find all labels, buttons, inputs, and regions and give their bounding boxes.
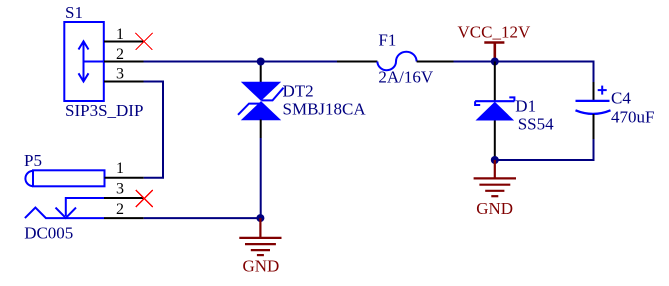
svg-text:GND: GND xyxy=(476,199,513,218)
svg-text:2: 2 xyxy=(116,46,124,63)
P5 sleeve chevron xyxy=(25,208,104,219)
svg-text:GND: GND xyxy=(243,257,280,276)
F1 wavy element xyxy=(377,52,416,71)
C4 top plate xyxy=(576,100,610,102)
capacitor C4 xyxy=(576,82,655,139)
svg-text:F1: F1 xyxy=(378,30,396,49)
svg-text:SMBJ18CA: SMBJ18CA xyxy=(283,100,367,119)
TVS diode DT2 xyxy=(238,62,366,139)
wire S1 pin2 to rail xyxy=(144,61,338,63)
svg-text:DC005: DC005 xyxy=(24,224,73,243)
GND right bar 2 xyxy=(479,184,510,186)
D1 cathode bar xyxy=(475,100,514,102)
svg-text:2A/16V: 2A/16V xyxy=(378,68,434,87)
D1 left schottky hook xyxy=(475,101,480,105)
svg-text:3: 3 xyxy=(116,180,124,197)
svg-text:SS54: SS54 xyxy=(518,115,554,134)
DT2 bottom pin xyxy=(260,120,262,139)
S1 body box xyxy=(64,22,104,101)
D1 top pin xyxy=(494,62,496,102)
S1 arrow head down xyxy=(79,73,89,81)
svg-text:S1: S1 xyxy=(65,3,83,22)
D1 anode triangle xyxy=(476,102,515,121)
svg-text:2: 2 xyxy=(116,201,124,218)
P5 pin 2 xyxy=(104,217,144,219)
C4 bottom pin xyxy=(593,114,595,139)
D1 bottom pin xyxy=(494,121,496,161)
DT2 lower bent bar xyxy=(238,104,261,115)
P5 pin 1 xyxy=(105,177,144,179)
svg-text:1: 1 xyxy=(116,160,124,177)
diode D1 xyxy=(475,62,554,161)
svg-text:D1: D1 xyxy=(515,96,536,115)
svg-text:VCC_12V: VCC_12V xyxy=(458,23,531,42)
GND left bar 3 xyxy=(251,249,270,251)
F1 left pin xyxy=(337,61,377,63)
GND left bar 4 xyxy=(257,254,264,256)
C4 plus sign xyxy=(598,89,607,91)
connector P5 (DC005) xyxy=(24,151,144,243)
connector S1 xyxy=(64,3,143,120)
svg-text:DT2: DT2 xyxy=(283,81,314,100)
ground GND left xyxy=(239,218,281,275)
junction D1 bottom xyxy=(491,156,499,164)
svg-text:470uF: 470uF xyxy=(611,108,654,127)
wire P5 pin2 to ground net xyxy=(144,217,261,219)
S1 slide arrow shaft xyxy=(83,43,85,80)
GND right bar 1 xyxy=(474,177,516,179)
S1 common bar xyxy=(84,61,105,63)
wire F1 to VCC junction xyxy=(454,61,495,63)
S1 pin 2 xyxy=(104,61,144,63)
C4 bottom plate arc xyxy=(576,110,611,114)
svg-text:C4: C4 xyxy=(611,88,631,107)
S1 pin 1 xyxy=(104,41,144,43)
GND right stub xyxy=(494,160,496,178)
F1 right pin xyxy=(417,61,454,63)
P5 barrel left cap xyxy=(25,171,33,186)
DT2 top pin xyxy=(260,62,262,83)
C4 top pin xyxy=(593,82,595,100)
DT2 top triangle xyxy=(241,82,281,101)
power VCC_12V xyxy=(458,23,531,62)
wire VCC junction to C4 corner xyxy=(495,62,594,83)
no-connect X on P5 pin 3 xyxy=(136,190,153,207)
P5 switch arrowhead xyxy=(56,208,77,218)
no-connect X on S1 pin 1 xyxy=(136,33,153,50)
GND left bar 1 xyxy=(239,237,281,239)
S1 arrow head up xyxy=(79,41,89,49)
GND left bar 2 xyxy=(245,243,276,245)
svg-text:SIP3S_DIP: SIP3S_DIP xyxy=(65,101,143,120)
wire C4 bottom to D1 bottom xyxy=(495,139,594,160)
GND left stub xyxy=(259,218,261,238)
VCC stem xyxy=(493,43,496,62)
S1 pin 3 xyxy=(104,81,144,83)
P5 switch arm xyxy=(66,198,104,216)
wire S1 pin3 down to P5 pin1 xyxy=(144,82,164,178)
wire DT2 to ground net xyxy=(260,138,262,218)
DT2 bottom triangle xyxy=(241,101,281,120)
ground GND right xyxy=(474,160,516,218)
VCC bar xyxy=(484,41,504,44)
junction DT2 top xyxy=(257,58,265,66)
junction VCC node xyxy=(491,58,499,66)
svg-text:3: 3 xyxy=(116,66,124,83)
svg-text:P5: P5 xyxy=(24,151,42,170)
svg-text:1: 1 xyxy=(116,26,124,43)
GND right bar 4 xyxy=(491,195,498,197)
P5 pin 3 xyxy=(104,197,144,199)
junction DT2 bottom xyxy=(256,214,264,222)
P5 barrel xyxy=(33,170,105,186)
GND right bar 3 xyxy=(485,190,504,192)
DT2 upper bent bar xyxy=(262,88,284,101)
fuse F1 xyxy=(337,30,454,86)
D1 right schottky hook xyxy=(509,97,514,101)
